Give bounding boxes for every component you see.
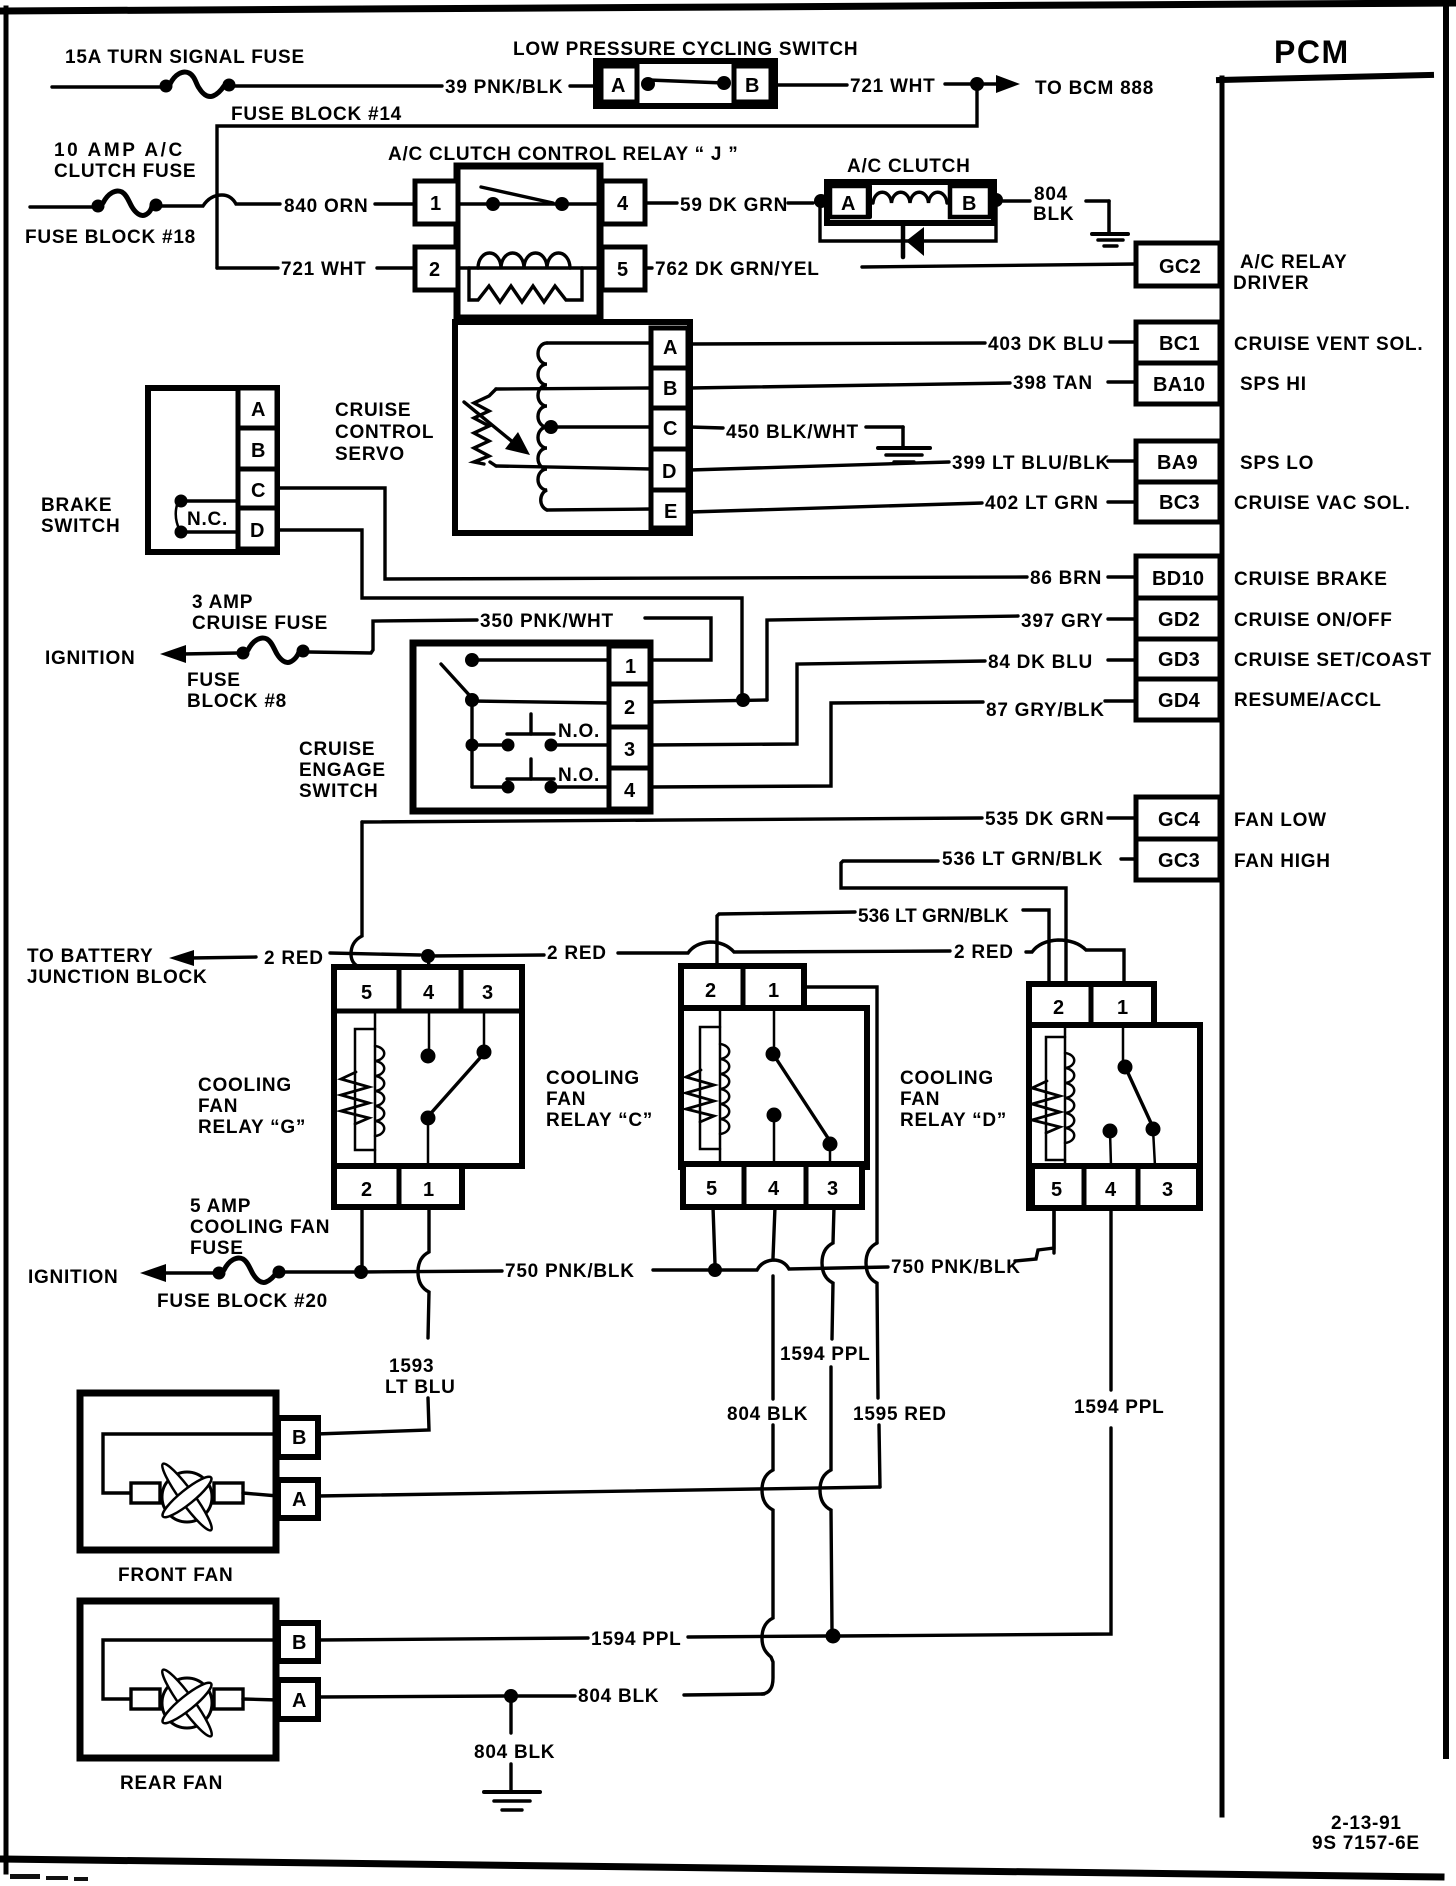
connector GC4 — [1136, 797, 1220, 839]
engage N.O. contact upper — [466, 739, 479, 752]
wire 402 LT GRN — [690, 503, 982, 512]
svg-text:GC2: GC2 — [1159, 256, 1201, 278]
front fan pin A — [278, 1480, 318, 1518]
engage switch blade — [465, 653, 479, 667]
svg-text:FAN: FAN — [900, 1089, 940, 1110]
svg-text:FUSE BLOCK #14: FUSE BLOCK #14 — [231, 104, 402, 125]
wire 721 WHT vertical run to fuse block 14 — [217, 84, 977, 268]
wire 450 BLK/WHT — [690, 427, 723, 428]
wire 750 PNK/BLK — [285, 1270, 355, 1273]
svg-text:N.O.: N.O. — [558, 765, 600, 786]
svg-text:399 LT BLU/BLK: 399 LT BLU/BLK — [952, 453, 1110, 474]
svg-text:4: 4 — [1105, 1179, 1117, 1201]
svg-text:84 DK BLU: 84 DK BLU — [988, 652, 1093, 673]
svg-text:398 TAN: 398 TAN — [1013, 373, 1093, 394]
svg-text:762 DK GRN/YEL: 762 DK GRN/YEL — [655, 259, 820, 280]
svg-text:1: 1 — [1117, 997, 1128, 1019]
brake switch pin B — [238, 428, 277, 469]
svg-text:IGNITION: IGNITION — [28, 1267, 118, 1288]
wire 1594 PPL relay D pin 4 down — [1109, 1208, 1112, 1390]
svg-text:3: 3 — [1162, 1179, 1173, 1201]
relay C contacts — [773, 1008, 776, 1047]
svg-text:COOLING: COOLING — [198, 1075, 292, 1096]
engage N.O. contact lower — [472, 785, 508, 788]
connector BA9 — [1136, 441, 1220, 482]
wire 804 BLK to ground — [509, 1696, 512, 1733]
svg-text:BRAKE: BRAKE — [41, 495, 112, 516]
scan marks — [10, 1874, 88, 1881]
svg-text:BC1: BC1 — [1159, 333, 1200, 355]
wire engage pin 2 to junction — [650, 700, 767, 702]
wire 398 TAN — [690, 383, 1010, 388]
servo main coil — [538, 343, 547, 510]
wire relay C pin 1 to 1595 RED — [804, 987, 877, 1243]
svg-text:536 LT GRN/BLK: 536 LT GRN/BLK — [858, 906, 1009, 927]
connector GD3 — [1136, 639, 1220, 679]
svg-text:3: 3 — [827, 1178, 838, 1200]
svg-text:5 AMP: 5 AMP — [190, 1196, 251, 1217]
svg-text:GD2: GD2 — [1158, 609, 1200, 631]
svg-text:A: A — [663, 337, 678, 359]
svg-text:BLK: BLK — [1033, 204, 1074, 225]
wire 840 ORN with hop over 721 vertical — [162, 195, 280, 206]
relay G coil — [374, 1012, 377, 1164]
rear fan motor symbol — [103, 1640, 278, 1699]
pin A — [601, 66, 637, 102]
svg-text:4: 4 — [423, 982, 435, 1004]
svg-text:2: 2 — [1053, 997, 1064, 1019]
svg-text:CRUISE: CRUISE — [299, 739, 375, 760]
wire 804 BLK to ground — [1003, 199, 1030, 202]
svg-text:1595 RED: 1595 RED — [853, 1404, 947, 1425]
svg-text:FAN: FAN — [198, 1096, 238, 1117]
junction engage pin2 node — [736, 693, 750, 707]
wire 350 PNK/WHT — [309, 620, 477, 653]
svg-text:LOW PRESSURE CYCLING SWITCH: LOW PRESSURE CYCLING SWITCH — [513, 39, 858, 60]
svg-text:CRUISE ON/OFF: CRUISE ON/OFF — [1234, 610, 1393, 631]
connector BC3 — [1136, 482, 1220, 522]
servo pin D — [651, 449, 688, 490]
wire brake pin D to engage junction — [277, 530, 742, 696]
svg-text:CRUISE VENT SOL.: CRUISE VENT SOL. — [1234, 334, 1423, 355]
svg-text:5: 5 — [1051, 1179, 1062, 1201]
wire relay D pin 5 to 750 label — [1052, 1208, 1055, 1253]
connector BD10 — [1136, 556, 1220, 598]
svg-text:FUSE: FUSE — [190, 1238, 244, 1259]
svg-text:535 DK GRN: 535 DK GRN — [985, 809, 1104, 830]
svg-text:BC3: BC3 — [1159, 492, 1200, 514]
svg-text:IGNITION: IGNITION — [45, 648, 135, 669]
svg-text:TO BCM 888: TO BCM 888 — [1035, 78, 1154, 99]
svg-text:FRONT FAN: FRONT FAN — [118, 1565, 233, 1586]
junction 721 WHT node — [970, 77, 984, 91]
engage pin 3 — [609, 727, 650, 768]
svg-text:4: 4 — [617, 193, 629, 215]
svg-text:5: 5 — [706, 1178, 717, 1200]
front fan pin B — [278, 1418, 318, 1457]
relay D contacts — [1122, 1025, 1125, 1060]
wire 84 DK BLU — [650, 661, 985, 745]
svg-text:536 LT GRN/BLK: 536 LT GRN/BLK — [942, 849, 1103, 870]
engage pin 4 — [609, 768, 650, 809]
svg-text:A: A — [841, 193, 856, 215]
connector BC1 — [1136, 322, 1220, 363]
wire 86 BRN from brake pin C — [277, 488, 1027, 579]
relay J coil — [458, 266, 600, 269]
svg-text:E: E — [664, 501, 678, 523]
wire 59 DK GRN — [645, 201, 677, 204]
svg-text:1594 PPL: 1594 PPL — [591, 1629, 682, 1650]
svg-text:3 AMP: 3 AMP — [192, 592, 253, 613]
relay J pin 5 — [602, 247, 645, 290]
relay G bottom pins — [334, 1166, 462, 1207]
svg-text:450 BLK/WHT: 450 BLK/WHT — [726, 422, 859, 443]
svg-text:9S 7157-6E: 9S 7157-6E — [1312, 1833, 1420, 1854]
wire relay G pin 2 down — [360, 1207, 363, 1268]
wire 762 DK GRN/YEL — [645, 266, 652, 269]
svg-text:JUNCTION BLOCK: JUNCTION BLOCK — [27, 967, 207, 988]
wire 87 GRY/BLK — [650, 702, 983, 787]
svg-text:SERVO: SERVO — [335, 444, 405, 465]
svg-text:CLUTCH FUSE: CLUTCH FUSE — [54, 161, 196, 182]
ground bottom — [509, 1764, 512, 1790]
svg-text:10 AMP A/C: 10 AMP A/C — [54, 140, 185, 161]
svg-text:C: C — [251, 480, 266, 502]
svg-text:DRIVER: DRIVER — [1233, 273, 1309, 294]
servo pin B — [651, 368, 688, 408]
svg-text:804 BLK: 804 BLK — [727, 1404, 808, 1425]
svg-text:87 GRY/BLK: 87 GRY/BLK — [986, 700, 1105, 721]
servo transducer resistor — [474, 396, 489, 464]
connector GD4 — [1136, 679, 1220, 720]
svg-text:2: 2 — [429, 259, 440, 281]
svg-text:4: 4 — [768, 1178, 780, 1200]
svg-text:721 WHT: 721 WHT — [850, 76, 936, 97]
wire 1594 PPL rear fan B — [318, 1638, 588, 1640]
relay J pin 2 — [415, 247, 458, 290]
relay G contacts — [428, 1012, 431, 1049]
svg-text:B: B — [292, 1427, 307, 1449]
svg-text:1: 1 — [430, 193, 441, 215]
svg-text:FUSE: FUSE — [187, 670, 241, 691]
svg-text:BD10: BD10 — [1152, 568, 1204, 590]
svg-text:PCM: PCM — [1274, 34, 1350, 70]
wire 39 PNK/BLK — [235, 84, 442, 87]
rear fan pin A — [278, 1680, 318, 1719]
svg-text:RELAY “G”: RELAY “G” — [198, 1117, 306, 1138]
wire 399 LT BLU/BLK — [690, 462, 949, 470]
engage pin 1 — [609, 646, 650, 684]
relay C coil — [719, 1010, 722, 1164]
svg-text:A: A — [251, 399, 266, 421]
wire 535 vertical to relay G pin 5 with hop over 2 RED — [351, 822, 362, 967]
relay J contact blade — [458, 202, 600, 205]
svg-text:1593: 1593 — [389, 1356, 434, 1377]
wire relay C pin 5 down — [713, 1207, 715, 1264]
wire 1593 LT BLU relay G pin 1 down with hop — [418, 1207, 429, 1338]
wire front fan A 1595 — [318, 1487, 880, 1496]
brake switch pin D — [238, 508, 277, 549]
svg-text:402 LT GRN: 402 LT GRN — [985, 493, 1099, 514]
connector GC2 — [1136, 243, 1220, 286]
svg-text:COOLING: COOLING — [546, 1068, 640, 1089]
svg-text:LT BLU: LT BLU — [385, 1377, 456, 1398]
wire to BCM 888 with arrow — [984, 82, 1003, 85]
svg-text:403 DK BLU: 403 DK BLU — [988, 334, 1104, 355]
relay J pin 1 — [415, 181, 458, 224]
relay J pin 4 — [602, 181, 645, 224]
svg-text:BLOCK #8: BLOCK #8 — [187, 691, 287, 712]
svg-text:CRUISE BRAKE: CRUISE BRAKE — [1234, 569, 1388, 590]
connector BA10 — [1136, 363, 1220, 404]
svg-text:5: 5 — [617, 259, 628, 281]
svg-text:A/C RELAY: A/C RELAY — [1240, 252, 1347, 273]
svg-text:A: A — [292, 1489, 307, 1511]
switch contact — [641, 77, 655, 91]
svg-text:SPS LO: SPS LO — [1240, 453, 1314, 474]
ground A/C clutch — [1086, 199, 1109, 203]
connector GC3 — [1136, 839, 1220, 880]
svg-text:804 BLK: 804 BLK — [474, 1742, 555, 1763]
svg-text:RELAY “D”: RELAY “D” — [900, 1110, 1007, 1131]
svg-text:59 DK GRN: 59 DK GRN — [680, 195, 788, 216]
svg-text:2: 2 — [361, 1179, 372, 1201]
servo wiper dot to pin C — [544, 420, 558, 434]
svg-text:397 GRY: 397 GRY — [1021, 611, 1104, 632]
svg-text:A: A — [611, 75, 626, 97]
svg-text:1: 1 — [625, 656, 636, 678]
clutch coil — [873, 192, 947, 203]
wire 397 GRY — [767, 616, 1018, 700]
svg-text:FUSE BLOCK #18: FUSE BLOCK #18 — [25, 227, 196, 248]
svg-text:FAN LOW: FAN LOW — [1234, 810, 1327, 831]
svg-text:SPS HI: SPS HI — [1240, 374, 1307, 395]
svg-text:804 BLK: 804 BLK — [578, 1686, 659, 1707]
svg-text:1: 1 — [768, 980, 779, 1002]
svg-text:ENGAGE: ENGAGE — [299, 760, 386, 781]
wire 804 BLK rear fan A — [318, 1696, 505, 1697]
svg-text:RESUME/ACCL: RESUME/ACCL — [1234, 690, 1382, 711]
svg-text:86 BRN: 86 BRN — [1030, 568, 1102, 589]
svg-text:SWITCH: SWITCH — [41, 516, 120, 537]
svg-text:2 RED: 2 RED — [954, 942, 1014, 963]
svg-text:B: B — [962, 193, 977, 215]
svg-text:B: B — [745, 75, 760, 97]
svg-text:1594 PPL: 1594 PPL — [780, 1344, 871, 1365]
svg-text:B: B — [663, 378, 678, 400]
brake switch pin A — [238, 388, 277, 428]
svg-text:1: 1 — [423, 1179, 434, 1201]
svg-text:COOLING: COOLING — [900, 1068, 994, 1089]
relay D coil — [1064, 1027, 1067, 1166]
svg-text:3: 3 — [482, 982, 493, 1004]
svg-text:D: D — [662, 461, 677, 483]
svg-text:CRUISE: CRUISE — [335, 400, 411, 421]
wire 535 DK GRN fan low — [362, 818, 982, 822]
svg-text:CRUISE SET/COAST: CRUISE SET/COAST — [1234, 650, 1432, 671]
svg-text:D: D — [250, 520, 265, 542]
svg-text:BA10: BA10 — [1153, 374, 1205, 396]
svg-text:A/C CLUTCH: A/C CLUTCH — [847, 156, 971, 177]
svg-text:A: A — [292, 1690, 307, 1712]
svg-text:721 WHT: 721 WHT — [281, 259, 367, 280]
engage pin 2 — [609, 684, 650, 727]
svg-text:39 PNK/BLK: 39 PNK/BLK — [445, 77, 563, 98]
brake switch pin C — [238, 469, 277, 508]
svg-text:2 RED: 2 RED — [547, 943, 607, 964]
svg-text:840 ORN: 840 ORN — [284, 196, 368, 217]
svg-text:FUSE BLOCK #20: FUSE BLOCK #20 — [157, 1291, 328, 1312]
svg-text:COOLING FAN: COOLING FAN — [190, 1217, 330, 1238]
servo wiper arrow — [464, 402, 514, 443]
svg-text:3: 3 — [624, 739, 635, 761]
ground servo — [866, 425, 903, 429]
servo pin E — [651, 490, 688, 528]
svg-text:2: 2 — [624, 697, 635, 719]
wire 804 BLK relay C pin 4 down — [773, 1207, 775, 1258]
svg-text:750 PNK/BLK: 750 PNK/BLK — [891, 1257, 1021, 1278]
svg-text:5: 5 — [361, 982, 372, 1004]
svg-text:4: 4 — [624, 780, 636, 802]
svg-text:2 RED: 2 RED — [264, 948, 324, 969]
pin B — [734, 66, 771, 102]
diode loop — [820, 205, 996, 241]
svg-text:REAR FAN: REAR FAN — [120, 1773, 223, 1794]
connector GD2 — [1136, 598, 1220, 639]
svg-text:FAN HIGH: FAN HIGH — [1234, 851, 1331, 872]
svg-text:B: B — [292, 1632, 307, 1654]
svg-text:1594 PPL: 1594 PPL — [1074, 1397, 1165, 1418]
svg-text:A/C CLUTCH CONTROL RELAY “ J ”: A/C CLUTCH CONTROL RELAY “ J ” — [388, 144, 738, 165]
junction 1594 PPL node — [826, 1629, 841, 1644]
svg-text:B: B — [251, 440, 266, 462]
svg-text:GC3: GC3 — [1158, 850, 1200, 872]
svg-text:N.O.: N.O. — [558, 721, 600, 742]
svg-text:GC4: GC4 — [1158, 809, 1201, 831]
wire 721 WHT top — [775, 83, 847, 86]
svg-text:TO BATTERY: TO BATTERY — [27, 946, 153, 967]
svg-text:SWITCH: SWITCH — [299, 781, 378, 802]
svg-text:CRUISE FUSE: CRUISE FUSE — [192, 613, 328, 634]
svg-text:2-13-91: 2-13-91 — [1331, 1813, 1402, 1834]
svg-text:350 PNK/WHT: 350 PNK/WHT — [480, 611, 614, 632]
wire 403 DK BLU — [690, 343, 985, 344]
wire 1594 PPL relay C pin 3 down — [822, 1207, 834, 1339]
svg-text:15A TURN SIGNAL FUSE: 15A TURN SIGNAL FUSE — [65, 47, 305, 68]
svg-text:RELAY “C”: RELAY “C” — [546, 1110, 653, 1131]
svg-text:2: 2 — [705, 980, 716, 1002]
svg-text:GD3: GD3 — [1158, 649, 1200, 671]
svg-text:804: 804 — [1034, 184, 1068, 205]
svg-text:GD4: GD4 — [1158, 690, 1201, 712]
servo pin C — [651, 408, 688, 449]
wire 2 RED to relay G pin 4 — [428, 956, 429, 967]
svg-text:C: C — [663, 418, 678, 440]
svg-text:FAN: FAN — [546, 1089, 586, 1110]
svg-text:N.C.: N.C. — [187, 509, 228, 530]
svg-text:CONTROL: CONTROL — [335, 422, 434, 443]
rear fan pin B — [278, 1623, 318, 1661]
svg-text:750 PNK/BLK: 750 PNK/BLK — [505, 1261, 635, 1282]
wire 721 WHT second — [217, 266, 278, 269]
servo pin A — [651, 328, 688, 368]
svg-text:BA9: BA9 — [1157, 452, 1198, 474]
svg-text:CRUISE VAC SOL.: CRUISE VAC SOL. — [1234, 493, 1411, 514]
front fan motor symbol — [103, 1434, 278, 1493]
